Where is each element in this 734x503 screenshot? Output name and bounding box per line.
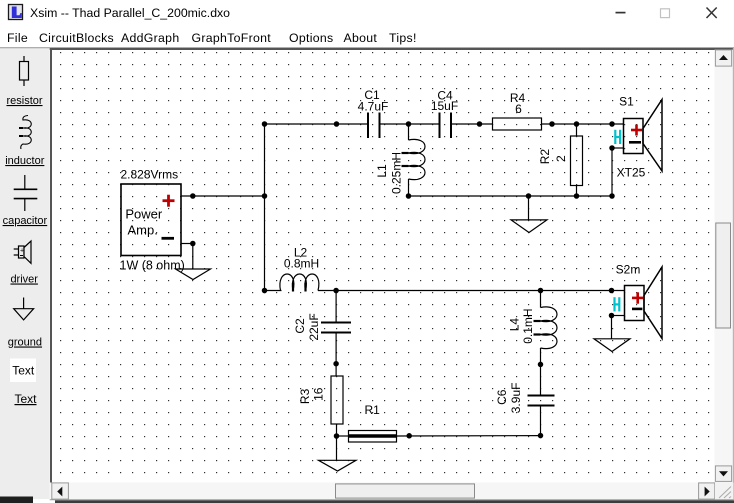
junction dot (610, 146, 614, 150)
wire top rail segment 2 (381, 123, 440, 125)
svg-text:capacitor: capacitor (3, 215, 48, 227)
maximize (661, 9, 670, 18)
junction dot L4 top (538, 288, 542, 292)
svg-text:resistor: resistor (6, 95, 42, 107)
wire amp plus to node (181, 195, 265, 197)
junction dot (538, 362, 542, 366)
svg-text:AddGraph: AddGraph (121, 31, 179, 45)
left tool palette background (0, 49, 50, 500)
svg-text:22uF: 22uF (307, 313, 321, 340)
junction dot (334, 362, 338, 366)
svg-text:inductor: inductor (5, 155, 44, 167)
svg-text:+: + (20, 248, 24, 255)
ground amp (176, 244, 211, 280)
junction dot (191, 241, 195, 245)
junction dot (526, 194, 530, 198)
wire bottom rail lf 1 (337, 435, 349, 437)
minimize (616, 12, 626, 14)
toolbar Text button (10, 359, 36, 383)
svg-text:Text: Text (12, 364, 35, 378)
resistor R4 (493, 91, 542, 130)
svg-text:15uF: 15uF (431, 99, 458, 113)
power amp U1 (121, 184, 181, 256)
wire left bus vertical (264, 124, 266, 291)
junction dot (407, 434, 411, 438)
junction dot R2 top (574, 122, 578, 126)
junction dot (609, 288, 613, 292)
wire bottom rail hf (409, 195, 613, 197)
svg-text:XT25: XT25 (617, 166, 646, 180)
toolbar resistor icon (20, 56, 29, 86)
junction dot (334, 434, 338, 438)
svg-text:S2m: S2m (616, 263, 641, 277)
toolbar driver icon (14, 241, 31, 263)
svg-text:Xsim -- Thad Parallel_C_200mic: Xsim -- Thad Parallel_C_200mic.dxo (30, 6, 230, 20)
junction dot node top (262, 122, 266, 126)
svg-text:6: 6 (515, 102, 522, 116)
junction dot (477, 122, 481, 126)
svg-text:R1: R1 (365, 403, 381, 417)
junction dot (610, 122, 614, 126)
vertical scrollbar (715, 50, 734, 483)
junction dot (610, 194, 614, 198)
resistor R2 (538, 124, 583, 196)
svg-text:driver: driver (10, 274, 38, 286)
wire bottom rail lf 2 (397, 435, 541, 437)
driver S1 (617, 95, 662, 180)
svg-text:4.7uF: 4.7uF (358, 100, 389, 114)
svg-text:C2: C2 (293, 318, 307, 334)
junction dot (538, 433, 542, 437)
wire top rail segment 4 (542, 123, 624, 125)
svg-text:Amp.: Amp. (128, 223, 158, 238)
svg-text:L1: L1 (375, 164, 389, 178)
toolbar inductor icon (19, 116, 31, 150)
schematic canvas (52, 50, 715, 483)
svg-text:2: 2 (554, 155, 568, 162)
toolbar capacitor icon (14, 175, 38, 211)
driver S2m (616, 263, 662, 339)
svg-text:Options: Options (289, 31, 333, 45)
svg-text:S1: S1 (619, 95, 634, 109)
svg-text:Power: Power (125, 207, 163, 222)
close (707, 8, 717, 19)
capacitor C2 (293, 291, 351, 377)
junction dot (262, 194, 266, 198)
svg-text:L4: L4 (507, 318, 521, 332)
title bar icon (9, 5, 23, 20)
node H for S2m (615, 297, 620, 311)
junction dot L1 top (406, 122, 410, 126)
junction dot C2 top (334, 288, 338, 292)
toolbar ground icon (14, 298, 34, 320)
wire top rail segment 3 (452, 123, 493, 125)
resistor R3 (298, 376, 343, 436)
svg-text:16: 16 (311, 387, 325, 401)
capacitor C4 (431, 89, 458, 139)
wire row2 main (318, 290, 625, 292)
svg-text:C6: C6 (495, 389, 509, 405)
junction dot (334, 122, 338, 126)
inductor L2 (280, 246, 319, 292)
horizontal scrollbar (50, 483, 715, 500)
svg-text:0.8mH: 0.8mH (284, 257, 319, 271)
svg-text:R3: R3 (298, 388, 312, 404)
svg-text:File: File (7, 31, 28, 45)
svg-text:2.828Vrms: 2.828Vrms (121, 168, 179, 182)
svg-text:ground: ground (8, 337, 42, 349)
ground S2m (594, 316, 630, 352)
svg-text:Text: Text (14, 392, 37, 406)
wire row2 left (265, 290, 282, 292)
inductor L4 (507, 291, 557, 365)
svg-text:About: About (344, 31, 378, 45)
junction dot (406, 194, 410, 198)
inductor L1 (375, 124, 425, 196)
wire S1 minus vertical (611, 148, 613, 196)
svg-text:GraphToFront: GraphToFront (192, 31, 272, 45)
wire S2m minus (612, 315, 625, 317)
junction dot (262, 288, 266, 292)
junction dot (574, 194, 578, 198)
junction dot (609, 313, 613, 317)
junction dot (550, 122, 554, 126)
svg-text:Tips!: Tips! (389, 31, 417, 45)
junction dot (191, 194, 195, 198)
ground lf (319, 436, 357, 471)
svg-text:R2: R2 (538, 149, 552, 165)
svg-text:0.25mH: 0.25mH (390, 152, 404, 194)
capacitor C6 (495, 364, 554, 435)
wire S1 minus (612, 147, 624, 149)
svg-text:0.1mH: 0.1mH (521, 308, 535, 343)
svg-text:1W (8 ohm): 1W (8 ohm) (120, 259, 185, 273)
wire amp minus (181, 243, 193, 245)
svg-text:3.9uF: 3.9uF (509, 383, 523, 414)
node H for S1 (615, 130, 620, 144)
bottom edge (0, 497, 33, 503)
ground hf (511, 196, 547, 233)
corner resize grip (715, 483, 733, 500)
resistor R1 (349, 403, 397, 442)
wire top rail segment 1 (265, 123, 368, 125)
capacitor C1 (358, 88, 389, 138)
svg-text:CircuitBlocks: CircuitBlocks (39, 31, 114, 45)
